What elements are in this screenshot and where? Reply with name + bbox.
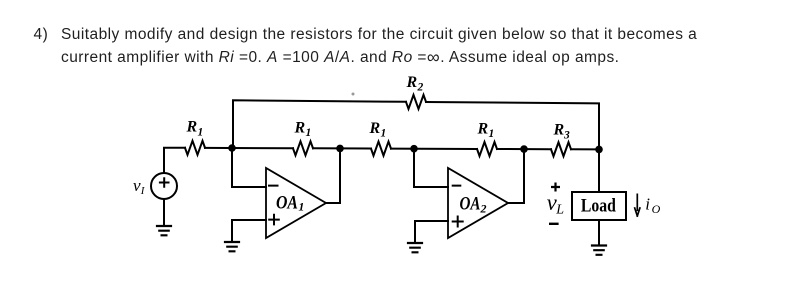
svg-text:R: R [477,121,489,138]
label R1 fourth [477,121,495,140]
svg-text:2: 2 [417,82,424,94]
wire OA2 output [508,149,524,203]
op-amp OA1 input signs [269,186,279,225]
resistor R1 second [293,141,313,155]
problem text line 2 [61,48,619,66]
load box [572,192,626,220]
svg-text:I: I [140,185,146,197]
arrow i_O [635,194,640,216]
node at first junction [228,144,236,152]
ground (source) [157,226,171,235]
svg-text:1: 1 [489,128,495,140]
node after OA2 output [520,145,528,153]
svg-text:R: R [369,120,381,137]
label Load [581,196,616,217]
resistor R2 [406,95,426,109]
problem text line 1 [34,27,49,43]
resistor R1 third [371,142,391,156]
node at OA2 input [410,145,418,153]
wire top feedback [233,100,599,149]
svg-text:R: R [294,120,306,137]
svg-text:OA: OA [460,194,481,215]
svg-text:1: 1 [298,200,304,214]
label R3 [553,121,571,141]
label OA2 [460,194,487,216]
wire OA2 inverting input [414,149,448,187]
svg-text:1: 1 [381,127,387,139]
label R1 second [294,120,312,140]
label v_L with polarity [547,183,565,224]
wire OA1 inverting input [232,148,266,187]
speckle [352,93,355,96]
svg-text:OA: OA [276,192,298,213]
svg-text:R: R [553,121,565,138]
wire OA1 output [326,148,340,203]
label R1 third [369,120,387,139]
svg-text:i: i [645,195,650,214]
op-amp OA2 input signs [453,186,463,227]
resistor R3 [551,142,571,156]
resistor R1 fourth [477,142,497,156]
label R1 first [186,119,204,139]
wire load top [598,149,600,192]
svg-text:1: 1 [198,126,204,138]
svg-text:R: R [406,74,418,91]
svg-text:Load: Load [581,196,616,217]
ground (OA1 +) [225,242,239,251]
op-amp OA2 [448,168,508,238]
label R2 [406,74,424,94]
svg-text:3: 3 [563,129,570,141]
wire load bottom [598,220,600,246]
svg-text:O: O [652,202,661,216]
source v_I [151,148,177,226]
ground (load) [592,246,606,255]
node at load [595,146,603,154]
resistor R1 first [185,141,205,155]
op-amp OA1 [266,168,326,238]
wire OA2 non-inverting input [415,221,448,243]
wire OA1 non-inverting input [232,220,266,242]
svg-text:2: 2 [480,202,487,216]
label i_O [645,195,660,216]
svg-text:L: L [555,203,564,218]
label OA1 [276,192,304,213]
wire main horizontal segments [164,148,599,150]
svg-text:1: 1 [306,127,312,139]
ground (OA2 +) [408,243,422,252]
node after OA1 output [336,145,344,153]
label v_I [133,176,146,197]
svg-text:R: R [186,119,198,136]
